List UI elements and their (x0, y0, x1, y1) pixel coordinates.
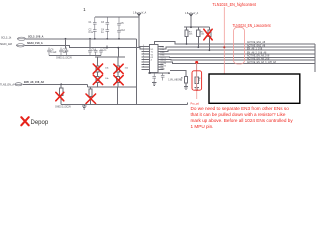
node SDA net name (27, 42, 43, 45)
capacitor C11 (99, 49, 103, 56)
capacitor C7 (59, 48, 63, 56)
capacitor C9 (88, 49, 92, 56)
red X over Q7 (114, 75, 123, 84)
wire vertical from SCL wire down to C7 (65, 39, 67, 49)
red net label highcurrent (212, 2, 256, 7)
red highlight line EN3 (196, 63, 198, 99)
resistor R4 top right (197, 30, 200, 47)
ground bottom left (82, 105, 86, 110)
wire power rail top (95, 17, 142, 47)
resistor R14 pulldown (195, 75, 198, 88)
wire VCC stem and rail (184, 17, 209, 27)
svg-text:0.1uF: 0.1uF (51, 52, 57, 54)
red X over R11 (56, 92, 64, 101)
capacitor C13 under IC (152, 73, 156, 81)
wire stub to R13 (170, 70, 186, 74)
label Q5 (105, 78, 109, 80)
IC bottom rail (148, 72, 170, 74)
resistor R12 depop (89, 89, 92, 105)
label U1 (151, 49, 155, 62)
svg-text:EN5_A8_1V8_A8: EN5_A8_1V8_A8 (24, 81, 44, 84)
net label bus2 (247, 44, 266, 47)
wire EN3 pulldown from bus7 (196, 64, 198, 75)
capacitor C4 column2 bottom (106, 28, 110, 39)
wire fan pin2 to bus2 (164, 47, 315, 49)
wire drop R12 (90, 87, 92, 89)
pin numbers U1 left (143, 45, 145, 69)
wire drop through R11 (60, 84, 62, 88)
transistor Q5 cluster r2c1 (96, 77, 99, 88)
wire fan pin3 to bus3 (164, 50, 315, 51)
wire fan pin5 to bus5 (164, 56, 315, 59)
label C11 (103, 50, 108, 52)
wire rail under caps left (49, 55, 101, 57)
IC U1 left pins (142, 47, 150, 70)
label R3 (189, 32, 193, 36)
label R14 (199, 78, 201, 82)
resistor R11 depop (60, 88, 63, 105)
label GND rail (56, 57, 72, 59)
junction dot wire2 feed (117, 47, 119, 49)
node SCL net name (28, 36, 44, 39)
wire bottom gnd line (61, 102, 187, 104)
label C7 (63, 50, 68, 54)
off-page connector SCL (17, 37, 26, 40)
ground under R13 (184, 87, 188, 90)
resistor R13 (184, 74, 187, 87)
power symbol VCC right (189, 12, 194, 17)
svg-text:SCL3_1V8_A: SCL3_1V8_A (28, 36, 44, 39)
red label under box (191, 103, 200, 106)
wire col1 feed (97, 57, 99, 63)
ground under IC (152, 82, 156, 86)
junction dot IC bottom left (149, 72, 151, 74)
wire fan pin4 to bus4 (164, 53, 315, 55)
capacitor C5 column3 top (117, 17, 121, 28)
red net label Lowcurrent (233, 23, 271, 28)
annotation box (209, 74, 300, 103)
wire EN row3 (23, 83, 87, 85)
label C9 (92, 50, 96, 52)
label R13 (181, 78, 183, 82)
junction dot rail (190, 26, 192, 28)
red X over Q6 (114, 64, 123, 73)
red X over Q4 (93, 64, 102, 73)
svg-text:C11: C11 (103, 50, 108, 52)
svg-text:SDA3_1V8_A: SDA3_1V8_A (27, 42, 43, 45)
Depop legend red X (21, 117, 28, 125)
red annotation text (191, 106, 294, 129)
capacitor C3 column2 top (106, 17, 110, 28)
net label bus6 (247, 57, 270, 60)
svg-text:mark up above. Before all 102: mark up above. Before all 1024 ENs contr… (191, 118, 294, 123)
wire SDA with jog (25, 45, 89, 47)
node SDA net label left (0, 43, 13, 46)
junction dots R drops on bus (186, 43, 188, 45)
IC U1 right pins (158, 47, 164, 70)
wire cluster feed vertical (117, 48, 119, 58)
off-page connector EN (15, 83, 23, 86)
wire IC top pin up (155, 42, 315, 45)
svg-text:SCL3_1k: SCL3_1k (1, 37, 12, 40)
label Q4 (105, 68, 109, 70)
capacitor C10 (94, 49, 98, 56)
off-page connector SDA (16, 44, 25, 47)
svg-text:GND: GND (161, 68, 166, 70)
wire SDA to IC (89, 48, 142, 49)
capacitor C14 under IC (161, 73, 165, 80)
pin labels U1 right (161, 47, 167, 71)
label 1.8V under IC (168, 79, 182, 82)
net label bus3 (247, 47, 263, 50)
red X over Q5 (93, 75, 102, 84)
label C3 (101, 22, 105, 24)
label C12 (121, 30, 126, 32)
wire IC bottom stubs (152, 72, 156, 75)
resistor R5 top right depopulated (208, 30, 211, 50)
red highlight box Lowcurrent nets (234, 27, 245, 64)
label C5 (121, 23, 125, 25)
junction dot IC bottom right (168, 72, 170, 74)
wire drop mid (117, 87, 119, 105)
label C1 (89, 22, 93, 24)
svg-text:OUT4: OUT4 (161, 66, 167, 68)
label VCC right (185, 13, 189, 15)
wire stub col2 to wire2 (106, 46, 108, 48)
svg-text:OUT3: OUT3 (161, 63, 167, 65)
power symbol VDD_1V8 top (137, 12, 142, 17)
IC U1 box (150, 45, 158, 73)
svg-text:Depop: Depop (31, 120, 49, 126)
capacitor C8 (65, 48, 69, 56)
svg-text:Do we need to separate EN3 fro: Do we need to separate EN3 from other EN… (191, 106, 290, 111)
wire pulldown rail (87, 86, 136, 88)
resistor R3 top right (185, 30, 188, 44)
label C4 (101, 30, 105, 34)
label Q6 (125, 68, 129, 70)
net label bus4 (247, 51, 267, 54)
label R11 value (55, 107, 71, 109)
svg-text:that it can be pulled down wit: that it can be pulled down with a resist… (191, 112, 286, 117)
svg-text:0.1u: 0.1u (89, 32, 94, 34)
red leader line highcurrent (223, 7, 225, 74)
wire vertical right of cluster (135, 39, 137, 87)
junction dot wire2 col2 (106, 47, 108, 49)
label VDD_1V8 (133, 13, 137, 15)
wire drops to Q1 Q2 Q3 (187, 27, 210, 30)
svg-text:TLN5_EN_A: TLN5_EN_A (0, 83, 14, 86)
svg-text:GND3.3_I2C3V: GND3.3_I2C3V (55, 107, 71, 109)
red X over R12 (86, 94, 96, 104)
transistor Q6 cluster r1c2 (117, 64, 120, 77)
label R4 (201, 32, 205, 36)
svg-text:C12: C12 (121, 30, 126, 32)
node EN oval connector row3 (0, 83, 14, 86)
svg-text:1 MPU pin.: 1 MPU pin. (191, 124, 214, 129)
net label bus1 (247, 41, 266, 44)
svg-text:GND3.3_I2C3V: GND3.3_I2C3V (56, 57, 72, 59)
wire EN down to rail (86, 84, 88, 87)
junction dots wire1 (65, 38, 67, 40)
svg-text:Pxx_pd: Pxx_pd (191, 103, 200, 106)
wire vertical from SCL wire down to C9 (89, 39, 91, 49)
label C6 (51, 50, 57, 54)
svg-text:SDA3_1k8: SDA3_1k8 (0, 43, 13, 46)
wire bus right vertical (314, 44, 316, 72)
node SCL net label left (1, 37, 12, 40)
wire SCL horizontal (26, 38, 136, 40)
transistor Q4 cluster r1c1 (96, 63, 99, 77)
wire fan pin7 to bus7 (164, 62, 315, 64)
node EN net name (24, 81, 44, 84)
ground under R14 (195, 88, 199, 91)
wire fan pin6 to bus6 (164, 58, 315, 61)
wire col2 feed (117, 57, 119, 63)
transistor Q7 cluster r2c2 (117, 77, 120, 88)
red X over R5 (204, 29, 212, 40)
wire cluster feed horizontal (95, 56, 125, 58)
net label bus7 (247, 61, 277, 64)
junction dot EN wire at R11 (60, 83, 62, 85)
wire drop right (135, 87, 137, 105)
net label bus5 (247, 54, 270, 57)
red junction dot EN3 (195, 61, 198, 64)
red highlight box around R14 (192, 71, 202, 90)
svg-text:TLN1024_EN_highcontent: TLN1024_EN_highcontent (212, 2, 256, 7)
label C2 (89, 30, 94, 34)
capacitor C1 column1 top (93, 17, 97, 28)
junction dot on EN2 line (223, 46, 225, 48)
capacitor C2 column1 bottom (93, 28, 97, 39)
capacitor C12 column3 bottom (117, 28, 121, 39)
capacitor C6 (47, 48, 51, 56)
